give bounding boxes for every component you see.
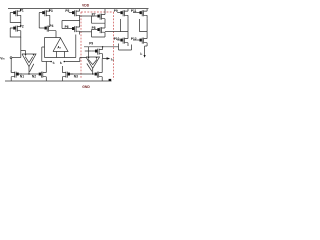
svg-text:P6: P6 [65, 25, 69, 29]
wire P2 chain down to Vin node [20, 37, 22, 58]
wire P7 gate feed [80, 15, 95, 17]
wire N3 source [61, 66, 63, 81]
transistor P9 [117, 9, 128, 19]
GND rail [5, 80, 112, 82]
node tail1 [28, 73, 29, 74]
wire P12 drain current arm [145, 46, 148, 56]
wire P10 source up [127, 32, 129, 36]
wire P3 gate chain down [39, 13, 44, 28]
wire N4 source [101, 80, 103, 81]
svg-text:P2: P2 [20, 25, 24, 29]
wire mirror box right [140, 19, 148, 32]
transistor P12 [136, 36, 147, 46]
wire P1-P2 connector [20, 22, 22, 24]
svg-text:P9: P9 [114, 9, 118, 13]
wire P7 source to rail [104, 9, 106, 12]
transistor P13 [92, 47, 103, 57]
current arrow I2 [144, 55, 146, 58]
wire P13 drain to output [103, 57, 107, 59]
terminal c1 [42, 61, 51, 63]
VDD rail [8, 8, 149, 10]
svg-text:Vin: Vin [0, 56, 5, 60]
wire N2 drain up [45, 62, 47, 71]
transistor N2 [36, 70, 47, 80]
svg-text:N1: N1 [20, 74, 24, 78]
svg-text:P10: P10 [114, 37, 120, 41]
transistor P11 [136, 9, 147, 19]
transistor P7 [94, 12, 105, 22]
transistor N1 [11, 70, 22, 80]
wire N3-N4 gate [70, 73, 91, 75]
wire P6 drain right into box [80, 31, 92, 33]
wire amp legs [57, 52, 65, 58]
transistor P6 [69, 25, 80, 35]
wire P1 diode loop [10, 13, 21, 23]
transistor P5 [69, 9, 80, 19]
wire P5 drain down [62, 19, 80, 29]
svg-text:P3: P3 [49, 9, 53, 13]
transistor P8 [94, 26, 105, 36]
wire N4 drain up [101, 59, 103, 71]
wire N2 source [45, 80, 47, 81]
amplifier Av (up triangle) [53, 38, 68, 52]
svg-text:P9: P9 [89, 41, 93, 45]
wire Vin to node [12, 57, 21, 59]
Vin terminal [10, 57, 12, 59]
wire box exit to right [105, 31, 120, 33]
wire mid vertical [42, 47, 45, 62]
svg-text:N2: N2 [32, 74, 36, 78]
wire P11 gate ext [133, 12, 136, 14]
wire A2 output [87, 64, 93, 75]
svg-text:P1: P1 [20, 9, 24, 13]
wire P8 source up [104, 23, 106, 25]
wire P6 source up [79, 21, 81, 25]
svg-text:VDD: VDD [82, 3, 90, 7]
wire N1 source [10, 80, 12, 81]
svg-text:P5: P5 [65, 9, 69, 13]
wire branch to amp A1 input [21, 51, 26, 55]
wire Vin down to N1 [10, 59, 12, 73]
transistor P2 [10, 24, 21, 34]
wire P10-P12 lower box [119, 44, 132, 51]
op-amp A1 (down triangle) [22, 54, 36, 67]
transistor P1 [10, 9, 21, 19]
wire A2 left input drop [88, 47, 90, 57]
wire bottom bus [45, 35, 76, 58]
wire P12 source up [146, 32, 148, 36]
wire P2 diode loop [10, 28, 21, 37]
wire P3 drain down [49, 19, 50, 27]
transistor P10 [117, 36, 128, 46]
svg-text:GND: GND [82, 85, 90, 89]
transistor N4 [91, 70, 102, 80]
wire mid bus y47 [84, 46, 119, 48]
red dashed box [81, 12, 114, 80]
wire P12 gate ext [133, 39, 136, 41]
svg-text:N3: N3 [74, 74, 78, 78]
wire N1-N2 gate [19, 73, 36, 75]
wire P7 diode loop [92, 16, 106, 23]
wire P13 gate stub [85, 50, 92, 52]
transistor P3 [39, 9, 50, 19]
transistor P4 [45, 27, 47, 30]
output arrow [107, 57, 111, 60]
wire P4 drain [49, 31, 56, 38]
op-amp A2 (down triangle) [86, 57, 100, 68]
wire P8 diode loop [92, 30, 106, 38]
svg-text:P4: P4 [50, 24, 54, 28]
wire mirror box left [120, 19, 128, 32]
transistor N3 [62, 70, 73, 80]
wire A1 output [29, 64, 34, 74]
